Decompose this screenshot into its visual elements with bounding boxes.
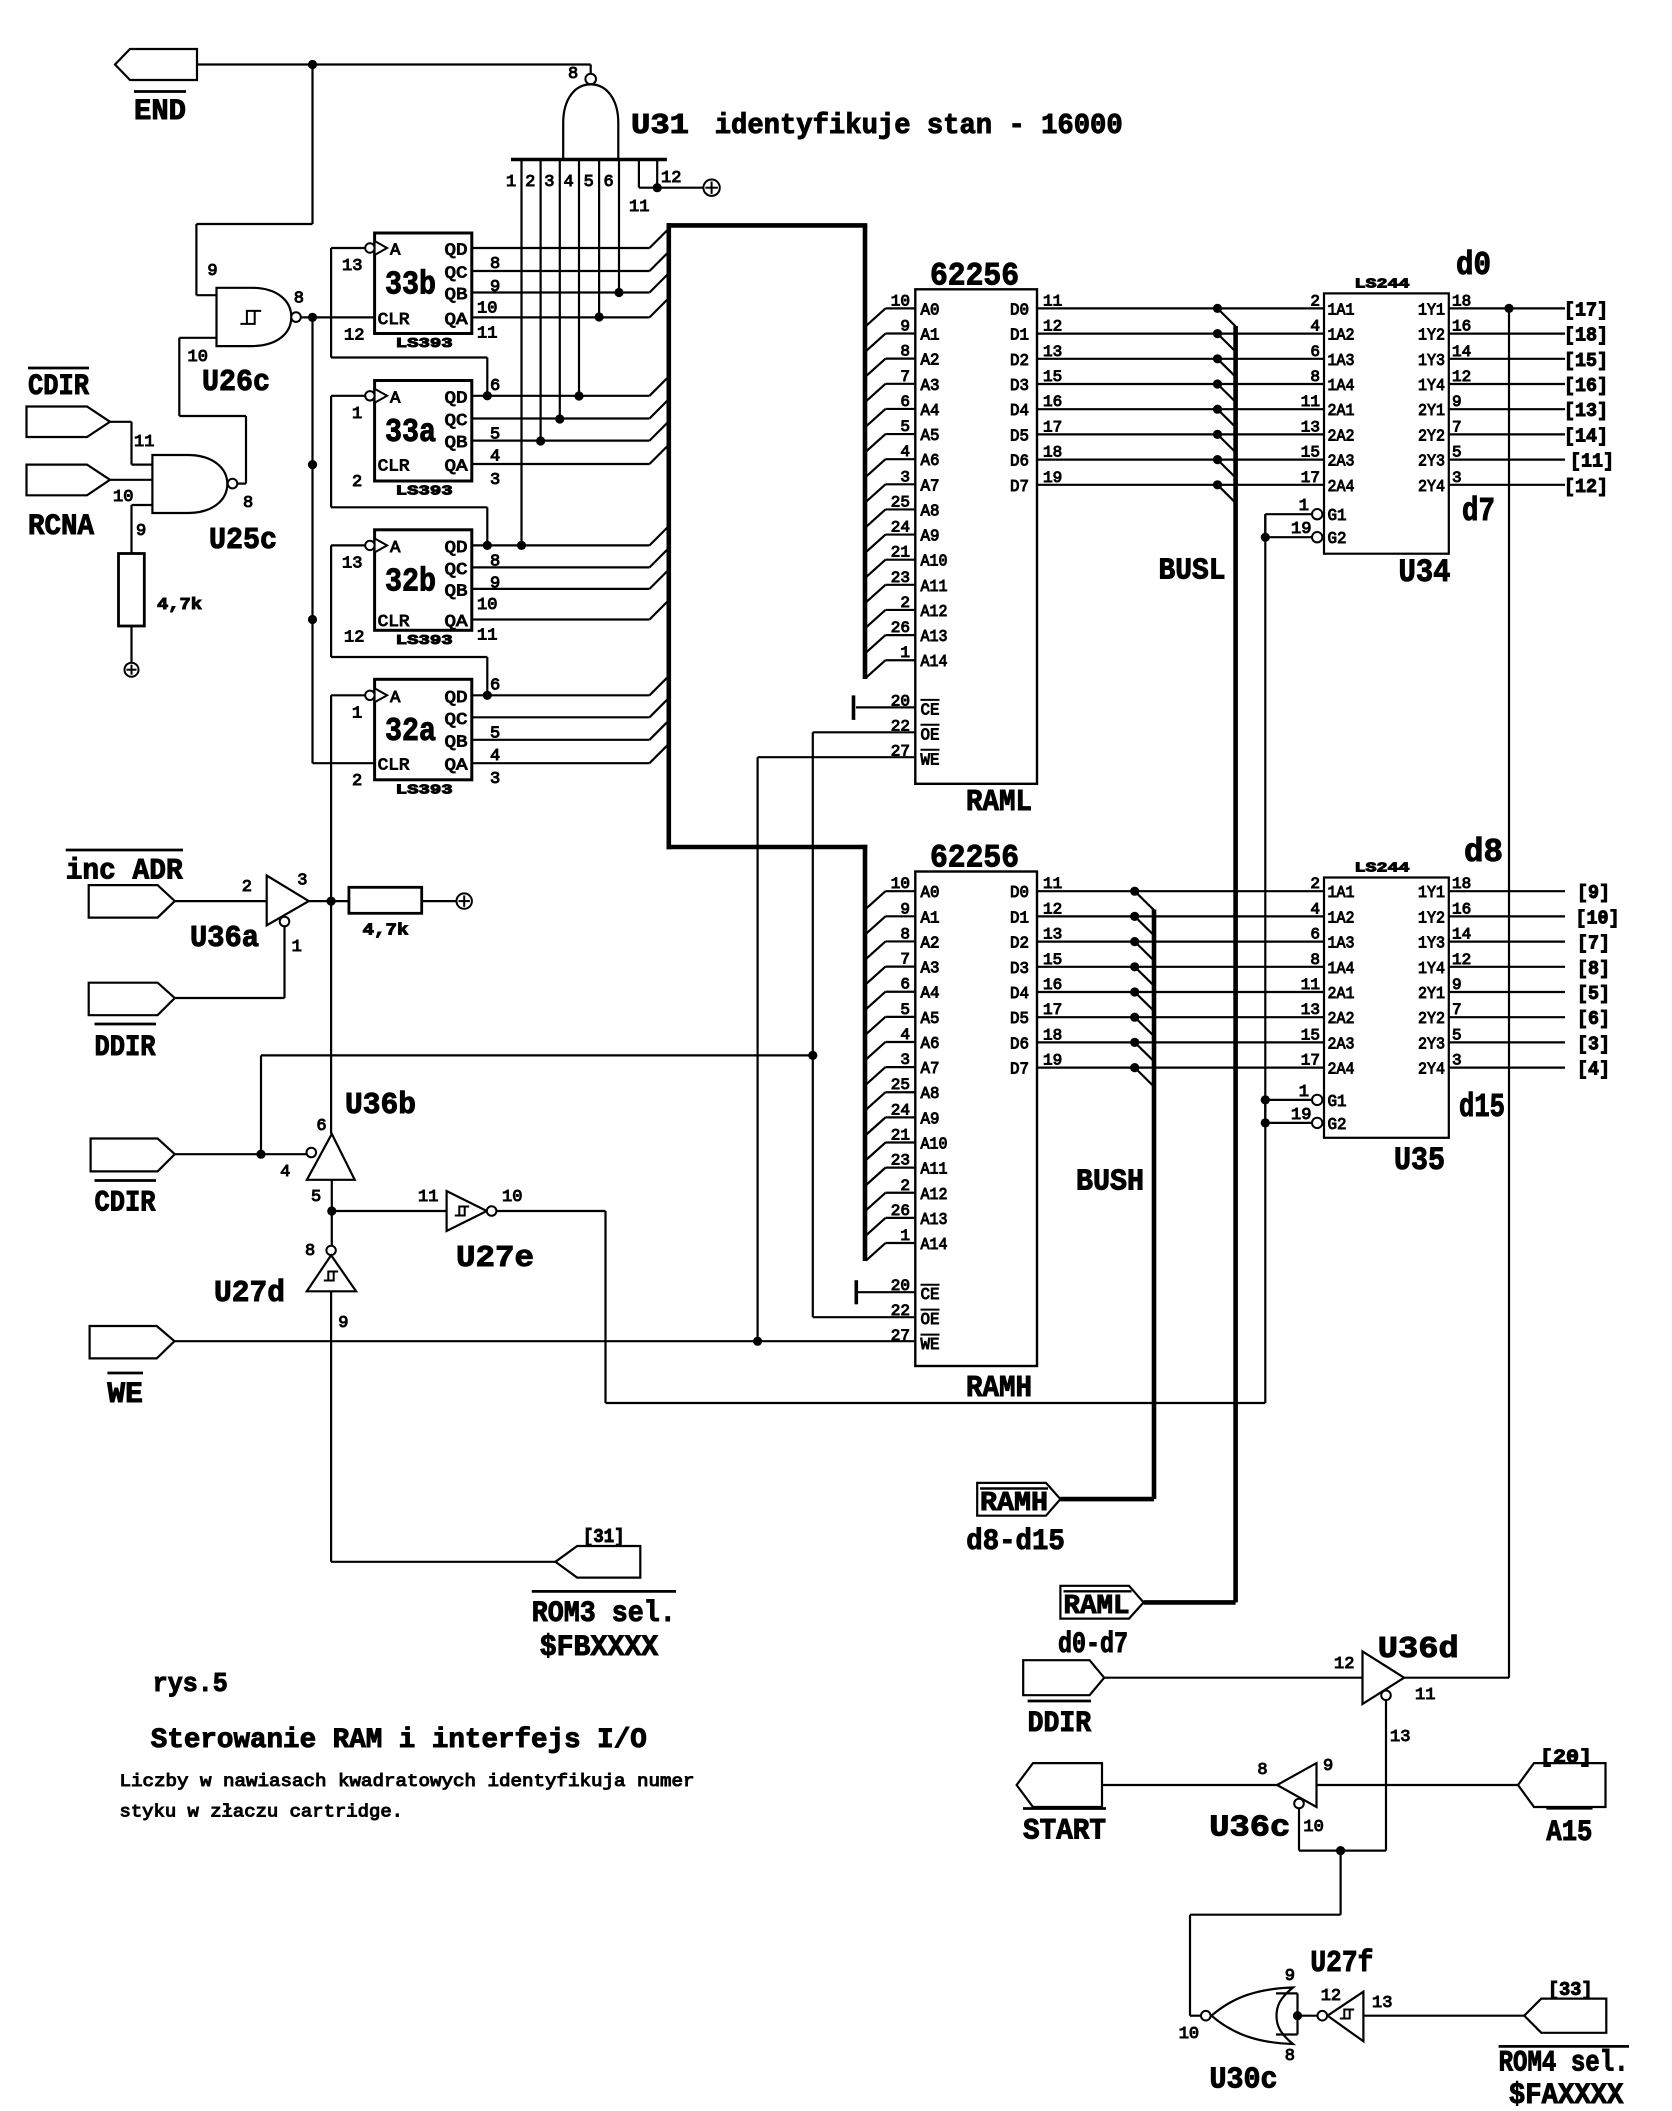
svg-text:WE: WE xyxy=(107,1378,142,1412)
svg-text:RAML: RAML xyxy=(966,785,1032,820)
svg-text:1Y4: 1Y4 xyxy=(1418,960,1445,979)
svg-text:16: 16 xyxy=(1043,393,1062,411)
svg-text:RAML: RAML xyxy=(1064,1592,1130,1622)
svg-text:2: 2 xyxy=(900,594,910,612)
svg-text:6: 6 xyxy=(604,173,614,192)
svg-text:[20]: [20] xyxy=(1540,1747,1592,1769)
svg-text:[12]: [12] xyxy=(1564,476,1608,498)
svg-text:12: 12 xyxy=(1043,900,1062,918)
svg-text:9: 9 xyxy=(136,522,146,541)
svg-text:9: 9 xyxy=(1323,1757,1333,1776)
svg-text:4,7k: 4,7k xyxy=(363,922,409,941)
svg-text:A12: A12 xyxy=(921,1186,948,1205)
svg-text:D2: D2 xyxy=(1010,352,1029,371)
svg-text:ROM3 sel.: ROM3 sel. xyxy=(532,1597,676,1631)
svg-text:6: 6 xyxy=(316,1117,326,1136)
svg-text:A13: A13 xyxy=(921,628,948,647)
svg-text:8: 8 xyxy=(490,552,500,571)
svg-text:11: 11 xyxy=(134,433,154,452)
svg-text:3: 3 xyxy=(490,471,500,490)
svg-text:LS393: LS393 xyxy=(396,336,453,352)
svg-text:16: 16 xyxy=(1043,976,1062,994)
svg-text:13: 13 xyxy=(342,554,362,573)
svg-text:1Y1: 1Y1 xyxy=(1418,301,1445,320)
svg-text:A0: A0 xyxy=(921,301,940,320)
svg-text:13: 13 xyxy=(1043,926,1062,944)
svg-text:A3: A3 xyxy=(921,960,940,979)
svg-text:8: 8 xyxy=(294,290,304,309)
svg-text:END: END xyxy=(134,95,186,129)
svg-text:U36c: U36c xyxy=(1209,1810,1290,1845)
svg-text:D5: D5 xyxy=(1010,1010,1029,1029)
svg-text:12: 12 xyxy=(1334,1655,1354,1674)
svg-text:D5: D5 xyxy=(1010,427,1029,446)
svg-text:27: 27 xyxy=(891,1327,910,1345)
svg-text:6: 6 xyxy=(1310,343,1320,361)
svg-text:17: 17 xyxy=(1043,1001,1062,1019)
svg-text:4: 4 xyxy=(490,448,500,467)
svg-text:d0: d0 xyxy=(1456,247,1491,284)
svg-text:3: 3 xyxy=(544,173,554,192)
svg-text:QD: QD xyxy=(445,242,468,261)
svg-text:10: 10 xyxy=(1179,2025,1199,2044)
svg-text:D6: D6 xyxy=(1010,453,1029,472)
svg-text:10: 10 xyxy=(477,596,497,615)
svg-text:2Y2: 2Y2 xyxy=(1418,1010,1445,1029)
svg-text:A: A xyxy=(390,539,401,558)
svg-text:12: 12 xyxy=(344,326,364,345)
svg-text:G1: G1 xyxy=(1328,507,1347,526)
svg-text:1A1: 1A1 xyxy=(1328,301,1355,320)
svg-text:$FBXXXX: $FBXXXX xyxy=(540,1631,659,1665)
svg-text:2A1: 2A1 xyxy=(1328,985,1355,1004)
svg-text:9: 9 xyxy=(338,1314,348,1333)
svg-text:62256: 62256 xyxy=(930,258,1019,295)
svg-text:d15: d15 xyxy=(1459,1089,1505,1126)
svg-text:CDIR: CDIR xyxy=(28,370,89,404)
svg-text:1A3: 1A3 xyxy=(1328,352,1355,371)
svg-text:3: 3 xyxy=(297,872,307,891)
svg-text:A8: A8 xyxy=(921,1085,940,1104)
svg-text:2Y1: 2Y1 xyxy=(1418,985,1445,1004)
svg-text:d8-d15: d8-d15 xyxy=(966,1525,1065,1559)
svg-text:U30c: U30c xyxy=(1210,2063,1278,2098)
svg-text:[10]: [10] xyxy=(1576,907,1620,929)
svg-text:U34: U34 xyxy=(1399,554,1451,591)
svg-text:QD: QD xyxy=(445,389,468,408)
svg-text:15: 15 xyxy=(1043,368,1062,386)
svg-text:QA: QA xyxy=(445,613,469,632)
svg-text:2: 2 xyxy=(900,1177,910,1195)
svg-text:[31]: [31] xyxy=(583,1526,625,1548)
svg-text:Sterowanie RAM i interfejs I/O: Sterowanie RAM i interfejs I/O xyxy=(151,1725,647,1756)
svg-text:9: 9 xyxy=(1285,1967,1295,1986)
svg-text:A7: A7 xyxy=(921,477,940,496)
svg-text:CE: CE xyxy=(921,701,940,720)
svg-text:5: 5 xyxy=(900,1001,910,1019)
svg-text:10: 10 xyxy=(891,875,910,893)
svg-text:D6: D6 xyxy=(1010,1035,1029,1054)
svg-text:[3]: [3] xyxy=(1577,1033,1610,1055)
svg-text:rys.5: rys.5 xyxy=(153,1670,228,1700)
svg-text:19: 19 xyxy=(1291,520,1311,539)
svg-text:4: 4 xyxy=(1310,900,1320,918)
svg-text:A2: A2 xyxy=(921,352,940,371)
svg-text:A6: A6 xyxy=(921,1035,940,1054)
svg-text:QA: QA xyxy=(445,458,469,477)
svg-text:A0: A0 xyxy=(921,884,940,903)
svg-text:11: 11 xyxy=(1301,976,1320,994)
svg-text:10: 10 xyxy=(113,488,133,507)
svg-text:CLR: CLR xyxy=(378,757,410,776)
svg-text:5: 5 xyxy=(311,1188,321,1207)
svg-text:styku w złaczu cartridge.: styku w złaczu cartridge. xyxy=(120,1803,404,1823)
svg-text:7: 7 xyxy=(900,368,910,386)
svg-text:6: 6 xyxy=(490,676,500,695)
svg-text:6: 6 xyxy=(490,377,500,396)
svg-text:13: 13 xyxy=(1301,418,1320,436)
svg-text:10: 10 xyxy=(891,292,910,310)
svg-text:[8]: [8] xyxy=(1577,958,1610,980)
svg-text:[13]: [13] xyxy=(1564,400,1608,422)
svg-text:A5: A5 xyxy=(921,1010,940,1029)
svg-text:[14]: [14] xyxy=(1564,425,1608,447)
svg-text:2A3: 2A3 xyxy=(1328,1035,1355,1054)
svg-text:1: 1 xyxy=(506,173,516,192)
svg-text:D1: D1 xyxy=(1010,327,1029,346)
svg-text:[33]: [33] xyxy=(1548,1979,1593,2001)
svg-text:QB: QB xyxy=(445,733,468,752)
svg-text:G2: G2 xyxy=(1328,530,1347,549)
svg-text:2A4: 2A4 xyxy=(1328,478,1355,497)
svg-text:19: 19 xyxy=(1291,1106,1311,1125)
svg-text:A11: A11 xyxy=(921,1161,948,1180)
svg-text:11: 11 xyxy=(477,627,497,646)
svg-text:A1: A1 xyxy=(921,909,940,928)
svg-text:13: 13 xyxy=(1043,343,1062,361)
svg-text:U36a: U36a xyxy=(190,921,259,956)
svg-text:LS244: LS244 xyxy=(1355,861,1410,877)
svg-text:25: 25 xyxy=(891,1076,910,1094)
svg-text:A9: A9 xyxy=(921,1110,940,1129)
svg-text:QC: QC xyxy=(445,561,468,580)
svg-text:12: 12 xyxy=(344,629,364,648)
svg-text:62256: 62256 xyxy=(930,840,1019,877)
svg-text:4: 4 xyxy=(564,173,574,192)
svg-text:U25c: U25c xyxy=(209,523,277,558)
svg-text:A4: A4 xyxy=(921,985,940,1004)
svg-text:CDIR: CDIR xyxy=(95,1186,156,1220)
svg-text:8: 8 xyxy=(1285,2047,1295,2066)
svg-text:33b: 33b xyxy=(385,267,436,304)
svg-text:QB: QB xyxy=(445,434,468,453)
svg-text:DDIR: DDIR xyxy=(1028,1707,1092,1741)
svg-text:[15]: [15] xyxy=(1564,350,1608,372)
svg-text:8: 8 xyxy=(305,1242,315,1261)
svg-text:WE: WE xyxy=(921,751,940,770)
svg-text:A8: A8 xyxy=(921,502,940,521)
svg-text:D4: D4 xyxy=(1010,402,1029,421)
svg-text:1: 1 xyxy=(900,644,910,662)
svg-text:3: 3 xyxy=(900,468,910,486)
svg-text:[16]: [16] xyxy=(1564,375,1608,397)
svg-text:1: 1 xyxy=(900,1227,910,1245)
svg-text:A14: A14 xyxy=(921,1236,948,1255)
svg-text:2: 2 xyxy=(525,173,535,192)
svg-text:[9]: [9] xyxy=(1577,882,1610,904)
svg-text:[7]: [7] xyxy=(1577,933,1610,955)
svg-text:8: 8 xyxy=(1310,951,1320,969)
svg-text:WE: WE xyxy=(921,1336,940,1355)
svg-text:D0: D0 xyxy=(1010,884,1029,903)
svg-text:D0: D0 xyxy=(1010,301,1029,320)
svg-text:[6]: [6] xyxy=(1577,1008,1610,1030)
svg-text:23: 23 xyxy=(891,1152,910,1170)
svg-text:QA: QA xyxy=(445,311,469,330)
svg-text:CLR: CLR xyxy=(378,311,410,330)
svg-text:8: 8 xyxy=(900,925,910,943)
svg-text:A13: A13 xyxy=(921,1211,948,1230)
svg-text:1: 1 xyxy=(1299,497,1309,516)
svg-text:identyfikuje stan - 16000: identyfikuje stan - 16000 xyxy=(715,109,1123,142)
svg-text:QB: QB xyxy=(445,582,468,601)
svg-text:A5: A5 xyxy=(921,427,940,446)
svg-text:4: 4 xyxy=(490,747,500,766)
svg-text:8: 8 xyxy=(1310,368,1320,386)
svg-text:OE: OE xyxy=(921,1311,940,1330)
svg-text:A10: A10 xyxy=(921,553,948,572)
svg-text:inc ADR: inc ADR xyxy=(66,854,183,888)
svg-text:6: 6 xyxy=(1310,926,1320,944)
svg-text:d0-d7: d0-d7 xyxy=(1058,1628,1128,1662)
svg-text:17: 17 xyxy=(1301,1052,1320,1070)
svg-text:[5]: [5] xyxy=(1577,983,1610,1005)
svg-text:6: 6 xyxy=(900,976,910,994)
svg-text:D3: D3 xyxy=(1010,377,1029,396)
svg-text:18: 18 xyxy=(1043,1026,1062,1044)
svg-text:D7: D7 xyxy=(1010,478,1029,497)
svg-text:23: 23 xyxy=(891,569,910,587)
svg-text:17: 17 xyxy=(1301,469,1320,487)
svg-text:U36b: U36b xyxy=(345,1088,416,1123)
svg-text:1Y4: 1Y4 xyxy=(1418,377,1445,396)
svg-text:A7: A7 xyxy=(921,1060,940,1079)
svg-text:8: 8 xyxy=(1257,1761,1267,1780)
svg-text:D4: D4 xyxy=(1010,985,1029,1004)
svg-text:11: 11 xyxy=(1043,875,1062,893)
svg-text:2A1: 2A1 xyxy=(1328,402,1355,421)
svg-text:9: 9 xyxy=(900,318,910,336)
svg-text:12: 12 xyxy=(1043,318,1062,336)
svg-text:1A3: 1A3 xyxy=(1328,935,1355,954)
svg-text:U26c: U26c xyxy=(202,365,270,400)
svg-text:A6: A6 xyxy=(921,452,940,471)
svg-text:6: 6 xyxy=(900,393,910,411)
svg-text:25: 25 xyxy=(891,493,910,511)
svg-text:4: 4 xyxy=(280,1163,290,1182)
svg-text:33a: 33a xyxy=(385,414,436,451)
svg-text:RAMH: RAMH xyxy=(966,1371,1032,1406)
svg-text:1A4: 1A4 xyxy=(1328,960,1355,979)
svg-text:[18]: [18] xyxy=(1564,325,1608,347)
svg-text:QC: QC xyxy=(445,412,468,431)
svg-text:A: A xyxy=(390,389,401,408)
svg-text:CLR: CLR xyxy=(378,613,410,632)
svg-text:11: 11 xyxy=(1415,1686,1435,1705)
svg-text:11: 11 xyxy=(477,324,497,343)
svg-text:11: 11 xyxy=(1301,393,1320,411)
svg-text:G1: G1 xyxy=(1328,1093,1347,1112)
svg-text:8: 8 xyxy=(243,494,253,513)
svg-text:QA: QA xyxy=(445,757,469,776)
svg-text:[17]: [17] xyxy=(1564,299,1608,321)
svg-text:32b: 32b xyxy=(385,563,436,600)
svg-text:A15: A15 xyxy=(1546,1816,1592,1850)
svg-text:CE: CE xyxy=(921,1286,940,1305)
svg-text:8: 8 xyxy=(900,343,910,361)
svg-text:2: 2 xyxy=(352,473,362,492)
svg-text:15: 15 xyxy=(1301,444,1320,462)
svg-text:U27f: U27f xyxy=(1310,1946,1373,1981)
svg-text:A1: A1 xyxy=(921,327,940,346)
svg-text:9: 9 xyxy=(490,278,500,297)
svg-text:4: 4 xyxy=(900,1026,910,1044)
svg-text:1: 1 xyxy=(1299,1083,1309,1102)
svg-text:A9: A9 xyxy=(921,528,940,547)
svg-text:13: 13 xyxy=(1372,1994,1392,2013)
svg-text:7: 7 xyxy=(900,951,910,969)
svg-text:OE: OE xyxy=(921,726,940,745)
svg-text:$FAXXXX: $FAXXXX xyxy=(1509,2079,1624,2111)
svg-text:19: 19 xyxy=(1043,469,1062,487)
svg-text:8: 8 xyxy=(568,65,578,84)
svg-text:D2: D2 xyxy=(1010,935,1029,954)
svg-text:1Y3: 1Y3 xyxy=(1418,352,1445,371)
svg-text:[4]: [4] xyxy=(1577,1059,1610,1081)
svg-text:1Y2: 1Y2 xyxy=(1418,909,1445,928)
svg-text:A14: A14 xyxy=(921,653,948,672)
svg-text:12: 12 xyxy=(661,169,681,188)
svg-text:U35: U35 xyxy=(1394,1142,1445,1179)
svg-text:2Y3: 2Y3 xyxy=(1418,1035,1445,1054)
svg-text:10: 10 xyxy=(502,1188,522,1207)
svg-text:2A3: 2A3 xyxy=(1328,453,1355,472)
svg-text:RCNA: RCNA xyxy=(28,510,94,544)
svg-text:21: 21 xyxy=(891,1127,910,1145)
svg-text:15: 15 xyxy=(1043,951,1062,969)
svg-text:D7: D7 xyxy=(1010,1061,1029,1080)
svg-text:9: 9 xyxy=(490,574,500,593)
svg-text:U36d: U36d xyxy=(1378,1632,1459,1667)
svg-text:21: 21 xyxy=(891,544,910,562)
svg-text:2Y3: 2Y3 xyxy=(1418,453,1445,472)
svg-text:19: 19 xyxy=(1043,1052,1062,1070)
svg-text:4: 4 xyxy=(900,443,910,461)
svg-text:26: 26 xyxy=(891,619,910,637)
svg-text:5: 5 xyxy=(584,173,594,192)
svg-text:1A2: 1A2 xyxy=(1328,327,1355,346)
svg-text:2Y4: 2Y4 xyxy=(1418,478,1445,497)
svg-text:d8: d8 xyxy=(1464,834,1503,871)
svg-text:11: 11 xyxy=(629,198,649,217)
svg-text:A12: A12 xyxy=(921,603,948,622)
svg-text:U31: U31 xyxy=(631,109,689,142)
svg-text:5: 5 xyxy=(900,418,910,436)
svg-text:2A4: 2A4 xyxy=(1328,1061,1355,1080)
svg-text:A4: A4 xyxy=(921,402,940,421)
svg-text:1Y1: 1Y1 xyxy=(1418,884,1445,903)
svg-text:12: 12 xyxy=(1321,1987,1341,2006)
svg-text:QD: QD xyxy=(445,539,468,558)
svg-text:24: 24 xyxy=(891,519,910,537)
svg-text:d7: d7 xyxy=(1462,493,1495,530)
svg-text:11: 11 xyxy=(1043,292,1062,310)
svg-text:LS393: LS393 xyxy=(396,484,453,500)
svg-text:2: 2 xyxy=(1310,292,1320,310)
svg-text:32a: 32a xyxy=(385,713,436,750)
svg-text:15: 15 xyxy=(1301,1026,1320,1044)
svg-text:[11]: [11] xyxy=(1570,451,1614,473)
svg-text:8: 8 xyxy=(490,255,500,274)
svg-text:5: 5 xyxy=(490,426,500,445)
svg-text:2Y2: 2Y2 xyxy=(1418,427,1445,446)
svg-text:QB: QB xyxy=(445,286,468,305)
svg-text:A2: A2 xyxy=(921,934,940,953)
svg-text:1Y3: 1Y3 xyxy=(1418,935,1445,954)
svg-text:G2: G2 xyxy=(1328,1116,1347,1135)
svg-text:2A2: 2A2 xyxy=(1328,427,1355,446)
svg-text:10: 10 xyxy=(477,300,497,319)
svg-text:A10: A10 xyxy=(921,1136,948,1155)
svg-text:Liczby w nawiasach kwadratowyc: Liczby w nawiasach kwadratowych identyfi… xyxy=(120,1772,695,1792)
svg-text:13: 13 xyxy=(1301,1001,1320,1019)
svg-text:3: 3 xyxy=(490,770,500,789)
svg-text:U27d: U27d xyxy=(214,1276,285,1311)
svg-text:13: 13 xyxy=(342,257,362,276)
svg-text:LS393: LS393 xyxy=(396,782,453,798)
svg-text:1A4: 1A4 xyxy=(1328,377,1355,396)
svg-text:A3: A3 xyxy=(921,377,940,396)
svg-text:24: 24 xyxy=(891,1101,910,1119)
svg-text:11: 11 xyxy=(418,1188,438,1207)
svg-text:1Y2: 1Y2 xyxy=(1418,327,1445,346)
svg-text:2: 2 xyxy=(352,772,362,791)
svg-text:4: 4 xyxy=(1310,318,1320,336)
svg-text:26: 26 xyxy=(891,1202,910,1220)
svg-text:A: A xyxy=(390,242,401,261)
svg-text:LS393: LS393 xyxy=(396,633,453,649)
svg-text:3: 3 xyxy=(900,1051,910,1069)
svg-text:1A2: 1A2 xyxy=(1328,909,1355,928)
svg-text:17: 17 xyxy=(1043,418,1062,436)
svg-text:QC: QC xyxy=(445,265,468,284)
svg-text:4,7k: 4,7k xyxy=(157,596,202,615)
svg-text:5: 5 xyxy=(490,724,500,743)
svg-text:CLR: CLR xyxy=(378,458,410,477)
svg-text:2: 2 xyxy=(1310,875,1320,893)
svg-text:BUSH: BUSH xyxy=(1076,1165,1144,1200)
svg-text:2Y1: 2Y1 xyxy=(1418,402,1445,421)
svg-text:1: 1 xyxy=(292,938,302,957)
svg-text:D1: D1 xyxy=(1010,909,1029,928)
svg-text:2A2: 2A2 xyxy=(1328,1010,1355,1029)
svg-text:9: 9 xyxy=(900,900,910,918)
svg-text:1A1: 1A1 xyxy=(1328,884,1355,903)
svg-text:1: 1 xyxy=(352,405,362,424)
svg-text:RAMH: RAMH xyxy=(980,1489,1048,1519)
svg-text:A: A xyxy=(390,689,401,708)
svg-text:9: 9 xyxy=(207,262,217,281)
